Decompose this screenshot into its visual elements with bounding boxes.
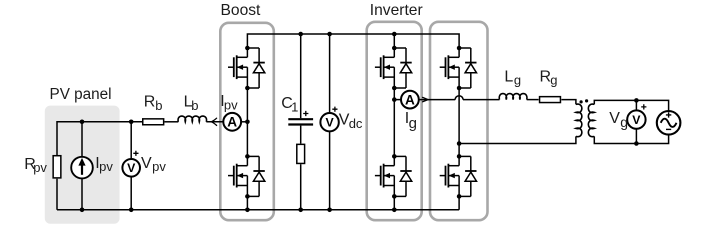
inductor Lg xyxy=(499,94,527,100)
wire: inverter left leg top xyxy=(393,34,395,48)
voltmeter Vg xyxy=(627,100,645,143)
wire: crossover to Lg xyxy=(463,99,500,101)
wire: boost leg to bottom bus xyxy=(246,196,248,209)
junction node: Ipv top xyxy=(80,120,85,125)
wire: ammeter to boost leg xyxy=(241,121,247,123)
inductor Lb xyxy=(178,116,207,122)
diode D4 (Q4 body diode) xyxy=(394,156,411,196)
junction at top of transistor Q5 (inverter right upper MOSFET) xyxy=(457,46,462,51)
junction at top of transistor Q2 (boost lower MOSFET) xyxy=(245,154,250,159)
junction node: inverter left leg top xyxy=(392,32,397,37)
svg-text:Vg: Vg xyxy=(609,110,628,130)
wire: Rg to transformer primary xyxy=(561,100,576,105)
polarity mark + inside AC source xyxy=(666,112,671,117)
wire: right leg upper-mid (under crossover) xyxy=(458,88,460,144)
diode D3 (Q3 body diode) xyxy=(394,48,411,88)
junction at bottom of transistor Q5 (inverter right upper MOSFET) xyxy=(457,86,462,91)
junction at bottom of transistor Q1 (boost upper MOSFET) xyxy=(245,86,250,91)
ammeter A (Ipv) xyxy=(223,113,241,131)
junction at bottom of transistor Q6 (inverter right lower MOSFET) xyxy=(457,194,462,199)
diode D2 (Q2 body diode) xyxy=(247,156,264,196)
polarity mark + for Vg xyxy=(641,104,646,109)
wire: boost leg lower-mid xyxy=(246,122,248,157)
polarity mark + for C1 xyxy=(303,111,308,116)
resistor (C1 damping) xyxy=(297,144,305,209)
ammeter A (Ig) xyxy=(401,91,419,109)
transformer T1 secondary winding xyxy=(588,104,594,137)
wire: Lb to ammeter xyxy=(206,121,223,123)
wire: Rb to Lb xyxy=(164,121,178,123)
inverter left leg outline box xyxy=(367,22,422,220)
junction at bottom of transistor Q3 (inverter left upper MOSFET) xyxy=(392,86,397,91)
transistor Q6 (inverter right lower MOSFET) xyxy=(440,156,459,196)
junction node: left leg mid tap xyxy=(392,97,397,102)
junction node: boost leg mid xyxy=(245,120,250,125)
voltmeter Vdc xyxy=(320,34,338,210)
resistor Rb xyxy=(143,119,164,125)
AC grid source xyxy=(657,111,681,135)
junction node: Vg top xyxy=(634,98,639,103)
capacitor C1 xyxy=(288,34,313,144)
current direction arrow for Ipv xyxy=(211,118,216,125)
wire crossover hop over right leg xyxy=(455,96,463,100)
junction node: Ipv source bottom xyxy=(80,208,85,213)
current source Ipv xyxy=(71,122,93,210)
junction at bottom of transistor Q4 (inverter left lower MOSFET) xyxy=(392,194,397,199)
wire: boost leg upper-mid xyxy=(246,88,248,122)
transistor Q3 (inverter left upper MOSFET) xyxy=(375,48,394,88)
svg-text:V: V xyxy=(127,161,136,175)
junction node: boost leg bottom xyxy=(245,208,250,213)
polarity mark - inside AC source xyxy=(666,128,671,130)
diode D6 (Q6 body diode) xyxy=(459,156,476,196)
wire: bottom return bus xyxy=(57,209,459,211)
wire: left leg to bottom bus xyxy=(393,196,395,209)
junction node: C1 top xyxy=(298,32,303,37)
svg-text:Inverter: Inverter xyxy=(370,2,423,19)
inverter right leg outline box xyxy=(430,22,488,220)
current direction arrow for Ig xyxy=(423,97,428,101)
junction node: Vg bottom xyxy=(634,141,639,146)
junction at top of transistor Q1 (boost upper MOSFET) xyxy=(245,46,250,51)
transformer T1 secondary polarity dot xyxy=(585,99,588,102)
svg-text:A: A xyxy=(227,115,237,130)
transformer T1 primary polarity dot xyxy=(580,100,583,103)
svg-text:V: V xyxy=(632,113,641,127)
junction at top of transistor Q6 (inverter right lower MOSFET) xyxy=(457,154,462,159)
transistor Q2 (boost lower MOSFET) xyxy=(228,156,247,196)
junction at top of transistor Q4 (inverter left lower MOSFET) xyxy=(392,154,397,159)
transistor Q1 (boost upper MOSFET) xyxy=(228,48,247,88)
junction node: C1 bottom xyxy=(298,208,303,213)
junction node: Vdc bottom xyxy=(327,208,332,213)
wire: right leg to bottom bus xyxy=(458,196,460,209)
wire: secondary bottom rail xyxy=(594,135,668,144)
junction at bottom of transistor Q2 (boost lower MOSFET) xyxy=(245,194,250,199)
wire: top DC bus xyxy=(247,34,459,48)
svg-text:Boost: Boost xyxy=(221,2,262,19)
polarity mark + for Vpv xyxy=(133,151,138,156)
wire: Lg to Rg xyxy=(527,99,539,101)
diode D1 (Q1 body diode) xyxy=(247,48,264,88)
junction at top of transistor Q3 (inverter left upper MOSFET) xyxy=(392,46,397,51)
wire: left leg tap to ammeter Ig xyxy=(394,99,401,101)
junction node: inverter left leg bottom xyxy=(392,208,397,213)
wire: left leg to mid tap xyxy=(393,88,395,100)
transformer T1 primary winding xyxy=(576,104,582,137)
junction node: Vpv top xyxy=(129,120,134,125)
diode D5 (Q5 body diode) xyxy=(459,48,476,88)
junction node: Vdc top xyxy=(327,32,332,37)
wire: right leg mid to lower unit xyxy=(458,144,460,157)
wire: ammeter to crossover xyxy=(419,99,455,101)
transistor Q5 (inverter right upper MOSFET) xyxy=(440,48,459,88)
polarity mark + for Vdc xyxy=(332,107,337,112)
boost converter outline box xyxy=(220,23,273,220)
svg-text:V: V xyxy=(325,116,334,130)
resistor Rpv xyxy=(53,156,61,210)
wire: primary return to right leg xyxy=(459,136,576,143)
PV panel shaded background xyxy=(45,106,120,224)
wire: secondary top rail xyxy=(594,100,668,111)
transistor Q4 (inverter left lower MOSFET) xyxy=(375,156,394,196)
wire: left leg mid to lower unit xyxy=(393,100,395,157)
resistor Rg xyxy=(540,97,561,103)
svg-text:PV panel: PV panel xyxy=(50,86,112,103)
wire: PV panel top rail xyxy=(57,122,142,155)
voltmeter Vpv xyxy=(122,122,140,210)
junction node: right leg mid tap xyxy=(457,141,462,146)
svg-text:A: A xyxy=(405,92,415,107)
junction node: Vpv bottom xyxy=(129,208,134,213)
